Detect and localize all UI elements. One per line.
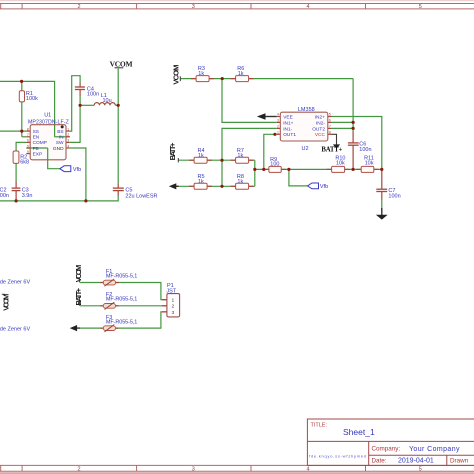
svg-text:22u LowESR: 22u LowESR xyxy=(125,193,157,199)
svg-text:COMP: COMP xyxy=(33,140,47,146)
svg-text:JST: JST xyxy=(166,288,176,294)
svg-text:2019-04-01: 2019-04-01 xyxy=(398,458,434,465)
svg-text:Diode Zener 6V: Diode Zener 6V xyxy=(0,326,30,332)
svg-text:100: 100 xyxy=(270,161,279,167)
svg-text:TITLE:: TITLE: xyxy=(311,423,328,429)
svg-text:1: 1 xyxy=(277,131,279,135)
svg-text:3: 3 xyxy=(192,466,195,472)
svg-text:BATT+: BATT+ xyxy=(74,287,83,305)
svg-text:4: 4 xyxy=(306,4,309,10)
svg-text:2: 2 xyxy=(77,4,80,10)
svg-text:Vfb: Vfb xyxy=(320,184,328,190)
svg-text:Date:: Date: xyxy=(372,458,387,465)
svg-text:2: 2 xyxy=(277,125,279,129)
svg-text:U1: U1 xyxy=(44,113,51,119)
svg-text:MF-R055-5,1: MF-R055-5,1 xyxy=(106,297,137,303)
svg-text:Your Company: Your Company xyxy=(409,446,460,453)
svg-text:1k: 1k xyxy=(238,71,244,77)
svg-text:IN: IN xyxy=(59,135,64,141)
svg-text:1k: 1k xyxy=(237,179,243,185)
svg-text:1k: 1k xyxy=(198,71,204,77)
svg-text:VCC: VCC xyxy=(315,132,326,138)
svg-text:1: 1 xyxy=(67,127,69,131)
svg-text:5: 5 xyxy=(329,113,331,117)
svg-text:GND: GND xyxy=(53,146,64,152)
svg-text:IN2-: IN2- xyxy=(316,120,325,126)
svg-text:6: 6 xyxy=(27,139,29,143)
svg-text:8: 8 xyxy=(27,127,29,131)
svg-text:3: 3 xyxy=(277,119,279,123)
svg-text:100n: 100n xyxy=(388,193,400,199)
svg-text:6: 6 xyxy=(329,119,331,123)
svg-text:9: 9 xyxy=(27,150,29,154)
svg-text:MF-R055-5,1: MF-R055-5,1 xyxy=(106,273,137,279)
svg-text:U2: U2 xyxy=(302,146,309,152)
svg-text:3: 3 xyxy=(67,139,69,143)
svg-text:VCOM: VCOM xyxy=(74,265,83,283)
svg-text:5: 5 xyxy=(27,144,29,148)
svg-text:LM358: LM358 xyxy=(298,107,315,113)
svg-text:Vfb: Vfb xyxy=(73,167,81,173)
svg-text:SS: SS xyxy=(33,129,39,135)
svg-text:VCOM: VCOM xyxy=(171,65,180,85)
svg-text:MF-R055-5,1: MF-R055-5,1 xyxy=(106,320,137,326)
svg-text:10k: 10k xyxy=(336,161,345,167)
svg-text:1k: 1k xyxy=(237,153,243,159)
svg-text:BS: BS xyxy=(57,129,63,135)
svg-text:VEE: VEE xyxy=(283,114,293,120)
svg-text:5: 5 xyxy=(419,4,422,10)
svg-text:100n: 100n xyxy=(87,92,99,98)
svg-text:7: 7 xyxy=(27,133,29,137)
svg-text:5: 5 xyxy=(419,466,422,472)
svg-text:3.9n: 3.9n xyxy=(22,193,33,199)
svg-text:4: 4 xyxy=(306,466,309,472)
svg-text:IN1+: IN1+ xyxy=(283,120,293,126)
svg-text:VCOM: VCOM xyxy=(1,294,10,311)
svg-text:6k8: 6k8 xyxy=(20,159,29,165)
svg-text:BATT+: BATT+ xyxy=(321,147,342,154)
svg-text:SW: SW xyxy=(56,140,64,146)
svg-text:VCOM: VCOM xyxy=(110,59,133,68)
svg-text:2: 2 xyxy=(77,466,80,472)
svg-text:2: 2 xyxy=(67,133,69,137)
svg-text:Company:: Company: xyxy=(372,446,401,453)
svg-text:7: 7 xyxy=(329,125,331,129)
svg-text:FB: FB xyxy=(33,146,39,152)
svg-text:100n: 100n xyxy=(0,193,9,199)
svg-text:1k: 1k xyxy=(198,153,204,159)
svg-text:Diode Zener 6V: Diode Zener 6V xyxy=(0,279,30,285)
svg-text:OUT1: OUT1 xyxy=(283,132,296,138)
svg-text:EN: EN xyxy=(33,135,40,141)
svg-text:BATT+: BATT+ xyxy=(168,142,177,160)
svg-text:MP2307DN-LF-Z: MP2307DN-LF-Z xyxy=(28,119,69,125)
svg-text:Sheet_1: Sheet_1 xyxy=(343,427,375,437)
svg-text:4: 4 xyxy=(67,144,69,148)
svg-text:10u: 10u xyxy=(103,98,112,104)
svg-text:3: 3 xyxy=(192,4,195,10)
svg-text:100n: 100n xyxy=(359,147,371,153)
svg-text:IN2+: IN2+ xyxy=(315,114,325,120)
svg-text:8: 8 xyxy=(329,131,331,135)
svg-text:fde.knqyo.ss-wfzhpmkd: fde.knqyo.ss-wfzhpmkd xyxy=(309,454,366,459)
svg-text:100k: 100k xyxy=(26,96,38,102)
svg-text:IN1-: IN1- xyxy=(283,126,292,132)
svg-text:EXP: EXP xyxy=(33,151,43,157)
svg-text:4: 4 xyxy=(277,113,279,117)
svg-text:OUT2: OUT2 xyxy=(312,126,325,132)
svg-text:1k: 1k xyxy=(198,179,204,185)
svg-text:10k: 10k xyxy=(365,161,374,167)
svg-text:Drawn: Drawn xyxy=(450,457,469,464)
